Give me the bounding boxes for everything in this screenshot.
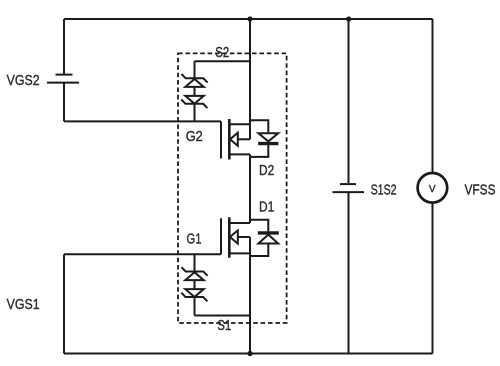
wire left bottom vertical (VGS1 branch) — [63, 254, 65, 353]
svg-text:VFSS: VFSS — [465, 182, 496, 199]
wire between lower zeners — [194, 280, 196, 289]
wire top rail — [64, 18, 433, 20]
transistor Q2 source stub (bottom) — [229, 153, 250, 155]
wire lower zener bottom vertical — [194, 297, 196, 316]
battery VGS2 long plate — [47, 82, 79, 84]
svg-text:G2: G2 — [186, 128, 203, 145]
wire main center vertical lower segment (Q1 body stub to S1) — [249, 237, 251, 354]
transistor Q2 channel bar — [228, 119, 231, 160]
diode D2 cathode bar — [258, 142, 278, 145]
wire S1S2 battery top vertical — [348, 19, 350, 183]
transistor Q1 body arrow — [230, 230, 238, 243]
transistor Q1 gate bar — [220, 218, 222, 254]
svg-text:VGS2: VGS2 — [7, 72, 40, 89]
wire lower zener return to S1 line — [195, 315, 251, 317]
transistor Q1 source stub (bottom) — [229, 252, 250, 254]
transistor Q1 body stub — [238, 236, 250, 238]
node junction dot top S1 line — [247, 16, 252, 21]
wire voltmeter bottom vertical — [432, 202, 434, 353]
wire D2 bottom branch — [250, 143, 268, 157]
zener ZL1 triangle — [185, 272, 203, 280]
wire between upper zeners — [194, 87, 196, 96]
wire S1S2 battery bottom vertical — [348, 192, 350, 353]
svg-text:D2: D2 — [259, 162, 274, 179]
zener ZU1 triangle — [185, 79, 203, 87]
wire voltmeter top vertical — [432, 19, 434, 174]
voltmeter VFSS circle — [418, 173, 448, 203]
svg-text:VGS1: VGS1 — [7, 296, 40, 313]
wire D2 top branch — [250, 120, 268, 133]
wire G1 gate horizontal — [64, 253, 221, 255]
svg-text:S1S2: S1S2 — [371, 181, 397, 198]
transistor Q1 drain stub (top) — [229, 222, 250, 224]
svg-text:D1: D1 — [259, 199, 274, 216]
node junction dot top S1S2 line — [346, 16, 351, 21]
svg-text:S2: S2 — [215, 44, 229, 61]
dashed module boundary box — [178, 53, 287, 323]
transistor Q2 gate bar — [220, 121, 222, 158]
diode D2 triangle — [258, 133, 278, 141]
node junction dot bottom S1 line — [247, 351, 252, 356]
battery VGS2 short plate — [56, 74, 73, 76]
zener ZU2 triangle — [185, 96, 203, 104]
wire VGS2 battery to G2 — [63, 83, 65, 122]
svg-text:S1: S1 — [217, 317, 231, 334]
battery S1S2 long plate — [333, 191, 365, 193]
wire D1 top branch — [250, 220, 268, 232]
zener ZL2 triangle — [185, 289, 203, 297]
wire upper zener to G2 wire — [194, 104, 196, 122]
wire lower zener from G1 wire — [194, 254, 196, 271]
transistor Q2 drain stub (top) — [229, 123, 250, 125]
wire main center vertical upper segment (S2 to Q2 body stub) — [249, 19, 251, 139]
zener ZU2 cathode bar — [181, 100, 207, 109]
zener ZL2 cathode bar — [181, 293, 207, 302]
wire main center vertical middle segment (Q2 drain to Q1 drain) — [249, 154, 251, 223]
zener ZU1 cathode bar — [182, 74, 208, 83]
transistor Q1 channel bar — [228, 217, 231, 257]
svg-text:V: V — [429, 184, 436, 195]
wire bottom rail — [64, 353, 433, 355]
wire G2 gate horizontal — [64, 120, 221, 122]
transistor Q2 body stub — [238, 138, 250, 140]
transistor Q2 body arrow — [230, 133, 238, 146]
diode D1 triangle — [258, 235, 278, 244]
battery S1S2 short plate — [340, 183, 356, 185]
zener ZL1 cathode bar — [182, 267, 208, 276]
wire left top vertical (VGS2 branch) — [63, 19, 65, 74]
wire D1 bottom branch — [250, 244, 268, 257]
diode D1 cathode bar — [258, 231, 279, 234]
wire zener branch top horizontal — [195, 60, 251, 62]
wire zener branch upper vertical — [194, 61, 196, 78]
svg-text:G1: G1 — [187, 230, 202, 247]
